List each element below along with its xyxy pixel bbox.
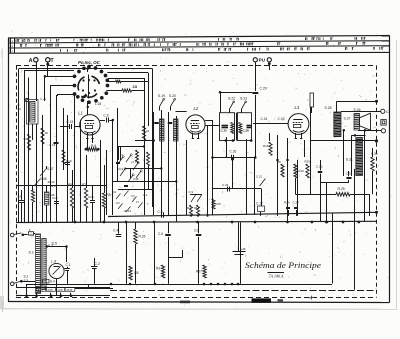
- svg-text:S.48: S.48: [40, 177, 47, 181]
- svg-text:S.19: S.19: [158, 94, 165, 98]
- svg-text:R.25: R.25: [338, 187, 345, 191]
- svg-text:46: 46: [18, 107, 22, 111]
- svg-text:C19: C19: [66, 159, 72, 163]
- svg-text:1V5: 1V5: [57, 288, 63, 292]
- svg-text:C.24: C.24: [261, 117, 268, 121]
- svg-text:15 B: 15 B: [66, 288, 72, 292]
- svg-text:C.29: C.29: [260, 86, 267, 90]
- svg-text:C.8: C.8: [194, 229, 199, 233]
- svg-text:S.2: S.2: [24, 275, 29, 279]
- svg-text:C.9: C.9: [189, 190, 194, 194]
- svg-text:L3: L3: [295, 105, 300, 110]
- svg-text:99: 99: [24, 137, 28, 141]
- svg-text:C: C: [386, 110, 389, 114]
- svg-text:L.6: L.6: [51, 259, 57, 263]
- svg-text:S.1: S.1: [29, 251, 34, 255]
- svg-text:R.26: R.26: [139, 235, 146, 239]
- svg-text:S.28: S.28: [325, 106, 332, 110]
- svg-text:S.4: S.4: [50, 280, 55, 284]
- svg-text:R11: R11: [186, 206, 191, 210]
- svg-text:C.21: C.21: [256, 175, 262, 179]
- svg-text:R27: R27: [196, 270, 202, 274]
- svg-text:L1: L1: [78, 111, 83, 116]
- svg-text:R.6: R.6: [91, 144, 96, 148]
- svg-text:C.17: C.17: [117, 153, 123, 157]
- svg-text:S.20: S.20: [169, 94, 176, 98]
- svg-text:C.32: C.32: [222, 183, 229, 187]
- svg-text:CA: CA: [18, 195, 22, 199]
- svg-text:R5: R5: [135, 271, 139, 275]
- svg-text:S.47: S.47: [47, 167, 54, 171]
- svg-text:7A.140.A: 7A.140.A: [269, 274, 284, 279]
- svg-text:R10: R10: [299, 169, 305, 173]
- svg-text:C.1: C.1: [66, 263, 71, 267]
- svg-text:C.2: C.2: [143, 193, 148, 197]
- svg-text:C.8: C.8: [158, 210, 163, 214]
- svg-text:C.26: C.26: [230, 150, 237, 154]
- svg-text:A: A: [29, 58, 33, 64]
- svg-text:R18: R18: [263, 144, 269, 148]
- svg-text:Po,Inc, OC: Po,Inc, OC: [78, 60, 101, 65]
- svg-text:Schéma de Principe: Schéma de Principe: [245, 260, 321, 270]
- svg-text:R12: R12: [194, 206, 200, 210]
- svg-text:C10: C10: [52, 196, 58, 200]
- svg-text:R25: R25: [305, 160, 311, 164]
- svg-text:C.17: C.17: [256, 202, 263, 206]
- svg-text:S.22: S.22: [228, 97, 235, 101]
- svg-text:R19: R19: [284, 201, 290, 205]
- svg-text:R3: R3: [156, 267, 160, 271]
- svg-text:40,41: 40,41: [124, 209, 131, 213]
- svg-text:6V3: 6V3: [38, 288, 44, 292]
- svg-text:C.8: C.8: [104, 113, 109, 117]
- svg-text:C.28: C.28: [243, 129, 250, 133]
- svg-text:F: F: [29, 228, 31, 232]
- svg-text:C.4: C.4: [113, 229, 118, 233]
- svg-text:S.31: S.31: [346, 158, 353, 162]
- svg-text:C.18: C.18: [49, 143, 56, 147]
- svg-text:C48: C48: [133, 177, 139, 181]
- svg-text:PU: PU: [259, 58, 266, 63]
- svg-text:C.33: C.33: [346, 172, 353, 176]
- svg-text:R5: R5: [107, 193, 111, 197]
- svg-text:17: 17: [136, 200, 140, 204]
- svg-text:S.27: S.27: [344, 117, 351, 121]
- svg-text:C.25: C.25: [221, 129, 228, 133]
- svg-text:C.V2: C.V2: [278, 117, 285, 121]
- svg-text:C.20: C.20: [316, 165, 323, 169]
- svg-text:2V5: 2V5: [47, 288, 53, 292]
- svg-text:C20: C20: [88, 195, 94, 199]
- svg-text:L.18: L.18: [95, 102, 101, 106]
- svg-text:41: 41: [113, 190, 117, 194]
- svg-text:C4: C4: [131, 194, 135, 198]
- svg-text:C.27: C.27: [293, 201, 300, 205]
- svg-text:C.2: C.2: [95, 262, 100, 266]
- svg-text:C.6: C.6: [158, 232, 163, 236]
- svg-text:L2: L2: [194, 106, 199, 111]
- svg-text:28: 28: [45, 131, 49, 135]
- svg-text:L.A: L.A: [41, 97, 47, 101]
- svg-text:+46: +46: [241, 247, 246, 251]
- svg-text:C12: C12: [118, 167, 124, 171]
- svg-text:24: 24: [146, 129, 150, 133]
- svg-text:C3: C3: [116, 201, 120, 205]
- svg-text:y.17: y.17: [131, 160, 137, 164]
- svg-text:S.5: S.5: [52, 242, 57, 246]
- svg-text:R15: R15: [216, 202, 222, 206]
- svg-text:S.23: S.23: [240, 97, 247, 101]
- svg-text:23: 23: [133, 84, 138, 89]
